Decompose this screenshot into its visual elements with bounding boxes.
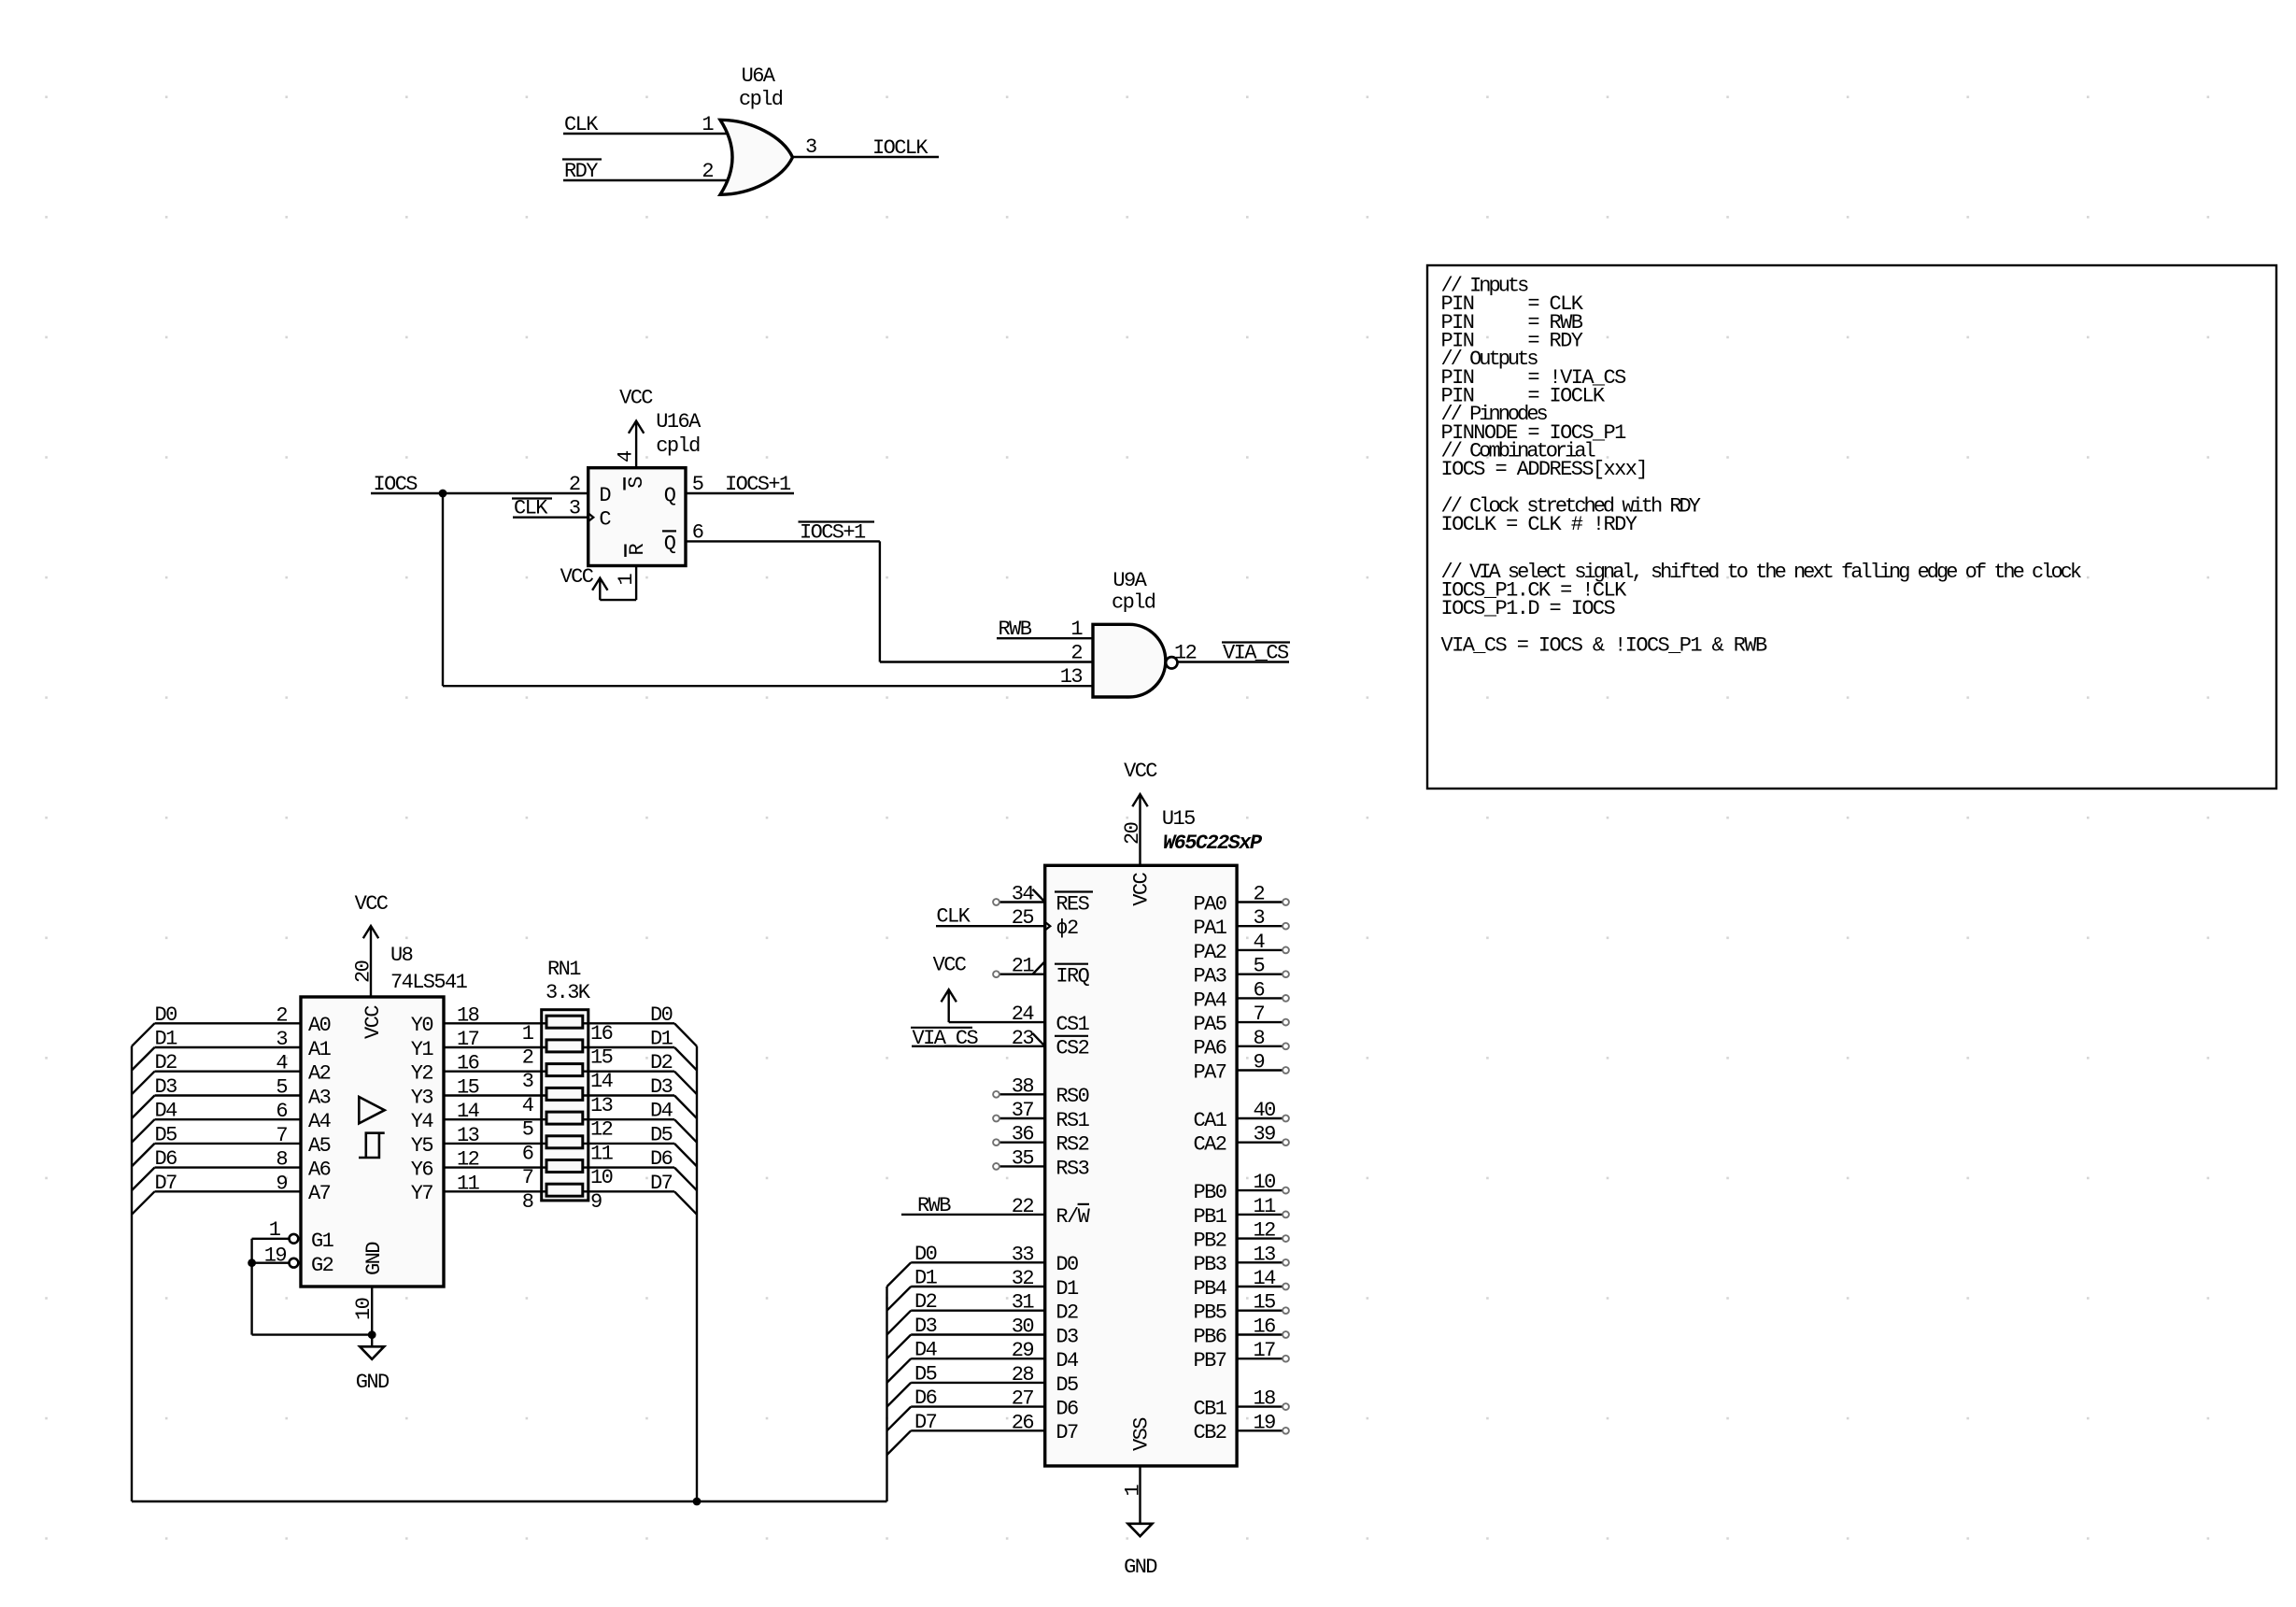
svg-text:VCC: VCC [1124, 760, 1157, 783]
svg-text:Y7: Y7 [411, 1182, 433, 1205]
wire bottom data bus horizontal [132, 1500, 887, 1502]
resistor RN1 element 6 [546, 1136, 583, 1148]
svg-text:1: 1 [702, 113, 714, 136]
svg-text:RS3: RS3 [1056, 1157, 1088, 1180]
svg-text:28: 28 [1012, 1363, 1034, 1387]
svg-text:IOCS+1: IOCS+1 [725, 473, 791, 496]
wire RN1 element 1 lead-through [542, 1022, 588, 1024]
svg-text:PB1: PB1 [1193, 1205, 1226, 1229]
output inversion bubble [1166, 657, 1177, 668]
pin PB6 (16) of U15 [1237, 1333, 1283, 1335]
svg-text:CLK: CLK [514, 497, 548, 520]
svg-text:D6: D6 [155, 1147, 177, 1171]
svg-text:17: 17 [457, 1028, 479, 1051]
svg-text:cpld: cpld [739, 88, 783, 111]
pin PB0 (10) of U15 [1237, 1189, 1283, 1191]
resistor RN1 element 7 [546, 1160, 583, 1173]
svg-text:U8: U8 [390, 944, 413, 967]
wire RN1 to D4 (right) [588, 1118, 674, 1120]
svg-text:PB0: PB0 [1193, 1181, 1226, 1204]
svg-text:cpld: cpld [1112, 591, 1155, 615]
svg-text:RS2: RS2 [1056, 1133, 1088, 1157]
svg-text:VCC: VCC [560, 565, 594, 589]
svg-text:PA0: PA0 [1193, 892, 1226, 916]
svg-text:2: 2 [702, 160, 713, 183]
wire D7 bus entry (left) [132, 1191, 155, 1215]
svg-text:VCC: VCC [361, 1005, 385, 1039]
svg-text:PA7: PA7 [1193, 1060, 1226, 1084]
wire RN1 element 8 lead-through [542, 1190, 588, 1192]
svg-text:CB2: CB2 [1193, 1421, 1226, 1444]
svg-text:D: D [599, 484, 611, 507]
pin CA2 (39) of U15 [1237, 1141, 1283, 1143]
svg-text:IOCS = ADDRESS[xxx]: IOCS = ADDRESS[xxx] [1441, 458, 1647, 481]
pin D4 (29) of U15 [911, 1358, 1044, 1359]
svg-text:Y4: Y4 [411, 1110, 434, 1133]
pin PB4 (14) of U15 [1237, 1286, 1283, 1287]
svg-text:2: 2 [1254, 883, 1265, 906]
svg-text:11: 11 [457, 1172, 480, 1195]
pin PB3 (13) of U15 [1237, 1261, 1283, 1263]
svg-text:11: 11 [1254, 1195, 1277, 1218]
svg-text:VCC: VCC [1130, 872, 1154, 905]
svg-text:IOCS: IOCS [374, 473, 418, 496]
wire right data bus vertical [696, 1046, 698, 1501]
resistor RN1 element 5 [546, 1112, 583, 1124]
wire G1 to G2 tie [252, 1238, 290, 1240]
svg-text:PB3: PB3 [1193, 1253, 1226, 1276]
wire RWB to U15 R/W [901, 1214, 1045, 1216]
wire D0 bus entry (left) [132, 1023, 155, 1046]
pin D6 (27) of U15 [911, 1405, 1044, 1407]
svg-text:D6: D6 [914, 1387, 937, 1410]
svg-text:D7: D7 [1056, 1421, 1078, 1444]
svg-text:CS2: CS2 [1056, 1037, 1088, 1060]
svg-text:D5: D5 [1056, 1373, 1078, 1397]
svg-text:18: 18 [457, 1003, 479, 1027]
wire D4 bus entry (left) [132, 1119, 155, 1143]
svg-text:D4: D4 [650, 1100, 673, 1123]
wire D7 bus entry (U15) [887, 1430, 912, 1455]
wire RN1 element 6 lead-through [542, 1143, 588, 1145]
pin D5 (28) of U15 [911, 1382, 1044, 1384]
pin PA4 (6) of U15 [1237, 997, 1283, 999]
svg-text:3.3K: 3.3K [546, 981, 591, 1004]
nand-gate U9A body [1093, 624, 1166, 697]
wire D3 to U8 pin A3 [155, 1094, 302, 1096]
svg-text:6: 6 [276, 1100, 287, 1123]
wire D3 bus entry (left) [132, 1096, 155, 1119]
svg-text:D1: D1 [650, 1028, 673, 1051]
svg-text:1: 1 [1070, 618, 1083, 641]
resistor-network RN1 outer body [542, 1010, 588, 1201]
svg-text:D0: D0 [650, 1003, 673, 1027]
svg-text:27: 27 [1012, 1387, 1034, 1411]
svg-text:RES: RES [1056, 892, 1089, 916]
wire RN1 to D7 (right) [588, 1190, 674, 1192]
svg-text:A7: A7 [308, 1182, 331, 1205]
svg-text:D3: D3 [1056, 1325, 1078, 1348]
clock wedge on pin C [588, 513, 594, 521]
svg-text:9: 9 [1254, 1051, 1265, 1074]
svg-text:D1: D1 [914, 1267, 938, 1290]
wire D5 bus entry (left) [132, 1144, 155, 1167]
svg-text:VIA_CS = IOCS & !IOCS_P1 & RWB: VIA_CS = IOCS & !IOCS_P1 & RWB [1441, 634, 1767, 658]
svg-text:VSS: VSS [1130, 1417, 1154, 1451]
svg-text:13: 13 [1060, 665, 1083, 689]
svg-text:PB2: PB2 [1193, 1230, 1226, 1253]
pin RS3 (35) of U15 [999, 1165, 1045, 1167]
svg-text:5: 5 [522, 1118, 533, 1142]
svg-text:GND: GND [1124, 1556, 1157, 1579]
wire D6 to U8 pin A6 [155, 1166, 302, 1168]
svg-text:IOCLK = CLK # !RDY: IOCLK = CLK # !RDY [1441, 513, 1637, 536]
svg-text:VCC: VCC [355, 892, 389, 916]
ground symbol below U8 [360, 1346, 384, 1359]
wire RWB to U9A pin 1 [997, 637, 1093, 639]
wire RN1 to D5 (right) [588, 1143, 674, 1145]
svg-text:S: S [625, 476, 648, 489]
svg-text:R/W: R/W [1056, 1205, 1090, 1229]
svg-text:D2: D2 [155, 1051, 177, 1074]
svg-text:Y1: Y1 [411, 1038, 434, 1061]
pin PA2 (4) of U15 [1237, 949, 1283, 951]
svg-text:ϕ2: ϕ2 [1056, 917, 1078, 940]
svg-text:20: 20 [352, 960, 376, 983]
wire D6 bus entry (U15) [887, 1407, 912, 1431]
pin PA1 (3) of U15 [1237, 925, 1283, 927]
pin 4 stub to VCC [635, 421, 637, 468]
svg-text:2: 2 [1070, 642, 1082, 665]
wire D3 bus entry (U15) [887, 1335, 912, 1359]
wire IOCS down to U9A pin 13 [442, 493, 444, 686]
svg-text:14: 14 [1254, 1267, 1277, 1290]
svg-text:Y2: Y2 [411, 1062, 433, 1086]
svg-text:5: 5 [1254, 955, 1265, 978]
svg-text:D2: D2 [650, 1051, 673, 1074]
pin RES (34) of U15 [999, 901, 1045, 903]
svg-text:U9A: U9A [1113, 569, 1147, 592]
svg-text:VIA_CS: VIA_CS [1223, 642, 1289, 665]
wire U16A Qbar to U9A pin 2 [686, 540, 880, 542]
pin PA5 (7) of U15 [1237, 1021, 1283, 1023]
wire D4 bus entry (U15) [887, 1358, 912, 1383]
svg-text:Y3: Y3 [411, 1086, 433, 1109]
svg-text:16: 16 [457, 1052, 479, 1075]
svg-text:5: 5 [276, 1076, 287, 1100]
wire RN1 to D1 (right) [588, 1046, 674, 1048]
pin IRQ (21) of U15 [999, 973, 1045, 974]
pin PA0 (2) of U15 [1237, 901, 1283, 903]
wire D0 bus entry (U15) [887, 1262, 912, 1287]
node GND junction [368, 1330, 376, 1339]
power VCC above U16A [629, 421, 644, 434]
svg-text:40: 40 [1254, 1099, 1276, 1122]
svg-text:6: 6 [522, 1142, 533, 1165]
svg-text:A4: A4 [308, 1110, 332, 1133]
svg-text:D7: D7 [914, 1411, 937, 1434]
svg-text:CA1: CA1 [1193, 1109, 1226, 1132]
pin CB2 (19) of U15 [1237, 1429, 1283, 1431]
via U15 body [1045, 865, 1237, 1466]
hysteresis symbol [359, 1133, 379, 1158]
pin PA7 (9) of U15 [1237, 1069, 1283, 1071]
svg-text:3: 3 [805, 135, 816, 159]
svg-text:D3: D3 [914, 1315, 937, 1338]
svg-text:29: 29 [1012, 1339, 1034, 1362]
buffer symbol triangle [359, 1097, 384, 1123]
resistor RN1 element 1 [546, 1016, 583, 1028]
svg-text:74LS541: 74LS541 [390, 971, 468, 994]
resistor RN1 element 4 [546, 1088, 583, 1100]
pin PA3 (5) of U15 [1237, 973, 1283, 974]
svg-text:39: 39 [1254, 1123, 1276, 1146]
svg-text:RDY: RDY [564, 160, 598, 183]
svg-text:A1: A1 [308, 1038, 332, 1061]
svg-text:1: 1 [1122, 1485, 1145, 1497]
svg-text:GND: GND [356, 1371, 390, 1394]
svg-text:IOCLK: IOCLK [872, 136, 928, 160]
svg-text:34: 34 [1012, 883, 1035, 906]
svg-text:3: 3 [276, 1028, 287, 1051]
wire U8 pin 10 (GND) [371, 1287, 373, 1346]
pin PB5 (15) of U15 [1237, 1309, 1283, 1311]
wire RN1 element 4 lead-through [542, 1094, 588, 1096]
svg-text:D6: D6 [650, 1147, 673, 1171]
svg-text:9: 9 [590, 1190, 602, 1214]
wire RN1 to D2 (right) [588, 1070, 674, 1072]
wire RN1 to D0 (right) [588, 1022, 674, 1024]
buffer U8 body [301, 997, 444, 1287]
svg-text:10: 10 [590, 1166, 613, 1189]
svg-text:A6: A6 [308, 1159, 331, 1182]
inversion bubble G2 [290, 1259, 299, 1268]
wire D6 bus entry (left) [132, 1168, 155, 1191]
svg-text:RN1: RN1 [547, 958, 581, 981]
svg-text:20: 20 [1121, 822, 1144, 845]
svg-text:PA5: PA5 [1193, 1013, 1226, 1036]
svg-text:D1: D1 [1056, 1277, 1079, 1301]
power VCC above U15 (pin 20) [1139, 794, 1141, 865]
svg-text:19: 19 [1254, 1411, 1276, 1434]
wire U15 pin 1 (VSS) to GND [1139, 1466, 1141, 1524]
svg-text:D2: D2 [914, 1290, 937, 1314]
svg-text:3: 3 [522, 1070, 533, 1093]
pin 1 stub to VCC (bottom) [635, 566, 637, 601]
svg-text:D4: D4 [1056, 1349, 1079, 1372]
svg-text:3: 3 [1254, 906, 1265, 930]
wire U16A Q to IOCS+1 [686, 492, 794, 494]
pin D7 (26) of U15 [911, 1429, 1044, 1431]
svg-text:D1: D1 [155, 1028, 178, 1051]
power VCC to U15 CS1 [948, 989, 950, 1022]
svg-text:21: 21 [1012, 955, 1035, 978]
wire D1 bus entry (right) [674, 1047, 697, 1071]
wire D0 bus entry (right) [674, 1023, 697, 1046]
wire U8 Y6 to RN1 [444, 1166, 542, 1168]
svg-text:35: 35 [1012, 1146, 1034, 1170]
svg-text:10: 10 [1254, 1171, 1276, 1194]
svg-text:8: 8 [1254, 1027, 1265, 1050]
pin CB1 (18) of U15 [1237, 1405, 1283, 1407]
wire U8 Y2 to RN1 [444, 1070, 542, 1072]
svg-text:D3: D3 [155, 1075, 177, 1099]
wire VIA_CS to U15 CS2 [912, 1045, 1045, 1047]
svg-text:D4: D4 [155, 1100, 178, 1123]
wire U6A pin 3 to IOCLK [792, 156, 939, 158]
pin D3 (30) of U15 [911, 1333, 1044, 1335]
resistor RN1 element 2 [546, 1040, 583, 1052]
svg-text:14: 14 [590, 1070, 614, 1093]
svg-text:4: 4 [276, 1052, 288, 1075]
pin D0 (33) of U15 [911, 1261, 1044, 1263]
svg-text:Q: Q [664, 532, 676, 555]
svg-text:18: 18 [1254, 1387, 1276, 1411]
wire U8 Y4 to RN1 [444, 1118, 542, 1120]
pin RS2 (36) of U15 [999, 1141, 1045, 1143]
svg-text:VCC: VCC [933, 954, 967, 977]
svg-text:G1: G1 [311, 1230, 334, 1253]
wire D5 to U8 pin A5 [155, 1143, 302, 1145]
svg-text:PA1: PA1 [1193, 917, 1226, 940]
svg-text:8: 8 [522, 1190, 533, 1214]
ground symbol below U15 [1128, 1524, 1153, 1537]
svg-text:2: 2 [276, 1003, 287, 1027]
svg-text:13: 13 [457, 1124, 479, 1147]
svg-text:VIA_CS: VIA_CS [913, 1027, 979, 1050]
svg-text:D2: D2 [1056, 1301, 1078, 1325]
svg-text:1: 1 [522, 1022, 534, 1045]
svg-text:15: 15 [457, 1076, 479, 1100]
wire CLK to U15 phi2 [936, 925, 1045, 927]
svg-text:PA4: PA4 [1193, 988, 1226, 1012]
wire D4 to U8 pin A4 [155, 1118, 302, 1120]
svg-text:D6: D6 [1056, 1398, 1078, 1421]
svg-text:13: 13 [590, 1094, 613, 1117]
svg-text:G2: G2 [311, 1254, 333, 1277]
pin RS0 (38) of U15 [999, 1093, 1045, 1095]
svg-text:Q: Q [664, 484, 676, 507]
svg-text:7: 7 [276, 1124, 287, 1147]
svg-text:Y6: Y6 [411, 1159, 433, 1182]
svg-text:12: 12 [590, 1118, 613, 1142]
svg-text:14: 14 [457, 1100, 480, 1123]
svg-text:C: C [599, 508, 611, 532]
equations text box frame [1427, 265, 2276, 789]
svg-text:4: 4 [1254, 931, 1266, 954]
svg-text:6: 6 [1254, 978, 1265, 1002]
svg-text:CLK: CLK [564, 113, 599, 136]
svg-text:38: 38 [1012, 1074, 1034, 1098]
pin RS1 (37) of U15 [999, 1117, 1045, 1119]
svg-text:GND: GND [362, 1242, 386, 1275]
power VCC above U8 (pin 20) [370, 926, 372, 997]
svg-text:D7: D7 [155, 1172, 177, 1195]
svg-text:15: 15 [1254, 1291, 1276, 1315]
svg-text:12: 12 [457, 1148, 479, 1172]
svg-text:37: 37 [1012, 1099, 1034, 1122]
wire U15 data bus vertical [886, 1287, 887, 1501]
wire U9A pin 12 to VIA_CS [1178, 661, 1290, 662]
svg-text:2: 2 [569, 473, 580, 496]
svg-text:VCC: VCC [619, 386, 653, 409]
wire RN1 element 3 lead-through [542, 1070, 588, 1072]
svg-text:PB7: PB7 [1193, 1349, 1226, 1372]
wire D7 bus entry (right) [674, 1191, 697, 1215]
wire D4 bus entry (right) [674, 1119, 697, 1143]
wire U8 Y5 to RN1 [444, 1143, 542, 1145]
svg-text:D4: D4 [914, 1339, 938, 1362]
wire RN1 element 7 lead-through [542, 1166, 588, 1168]
svg-text:15: 15 [590, 1046, 613, 1070]
svg-text:PB4: PB4 [1193, 1277, 1226, 1301]
wire D1 to U8 pin A1 [155, 1046, 302, 1048]
or-gate U6A [720, 120, 793, 194]
svg-text:Y5: Y5 [411, 1134, 433, 1158]
inversion bubble G1 [290, 1234, 299, 1244]
svg-text:12: 12 [1254, 1219, 1276, 1243]
svg-text:RWB: RWB [999, 618, 1032, 641]
svg-text:RS1: RS1 [1056, 1109, 1089, 1132]
svg-text:PA6: PA6 [1193, 1037, 1226, 1060]
svg-text:D0: D0 [1056, 1253, 1078, 1276]
wire RN1 to D3 (right) [588, 1094, 674, 1096]
svg-text:7: 7 [1254, 1003, 1265, 1026]
svg-text:8: 8 [276, 1148, 287, 1172]
svg-text:U6A: U6A [742, 64, 776, 88]
svg-text:IOCS_P1.D = IOCS: IOCS_P1.D = IOCS [1441, 597, 1616, 620]
svg-text:A5: A5 [308, 1134, 331, 1158]
svg-text:R: R [626, 544, 649, 556]
node IOCS junction [439, 490, 447, 498]
wire RN1 element 5 lead-through [542, 1118, 588, 1120]
wire D2 bus entry (left) [132, 1072, 155, 1095]
resistor RN1 element 3 [546, 1064, 583, 1076]
svg-text:PA2: PA2 [1193, 941, 1226, 964]
pin CA1 (40) of U15 [1237, 1117, 1283, 1119]
pin D1 (32) of U15 [911, 1286, 1044, 1287]
svg-text:16: 16 [590, 1022, 613, 1045]
svg-text:31: 31 [1012, 1291, 1035, 1315]
svg-text:A2: A2 [308, 1062, 331, 1086]
wire U8 Y3 to RN1 [444, 1094, 542, 1096]
svg-text:U16A: U16A [656, 410, 702, 434]
wire U8 Y7 to RN1 [444, 1190, 542, 1192]
wire CLK(inv) to U16A pin 3 (C) [513, 517, 588, 519]
pin PB7 (17) of U15 [1237, 1358, 1283, 1359]
pin PA6 (8) of U15 [1237, 1045, 1283, 1047]
svg-text:IRQ: IRQ [1056, 965, 1089, 988]
flip-flop U16A body [588, 468, 686, 566]
svg-text:7: 7 [522, 1166, 533, 1189]
wire CLK to U6A pin 1 [563, 133, 728, 135]
svg-text:RWB: RWB [917, 1194, 951, 1217]
svg-text:4: 4 [522, 1094, 534, 1117]
svg-text:2: 2 [522, 1046, 533, 1070]
svg-text:PB5: PB5 [1193, 1301, 1226, 1325]
svg-text:RS0: RS0 [1056, 1085, 1088, 1108]
svg-text:D5: D5 [650, 1123, 673, 1146]
svg-text:CS1: CS1 [1056, 1013, 1089, 1036]
svg-text:CB1: CB1 [1193, 1398, 1226, 1421]
wire D6 bus entry (right) [674, 1168, 697, 1191]
svg-text:cpld: cpld [656, 434, 700, 458]
svg-text:10: 10 [352, 1298, 376, 1320]
svg-text:PA3: PA3 [1193, 965, 1226, 988]
wire U8 Y0 to RN1 [444, 1022, 542, 1024]
svg-text:13: 13 [1254, 1243, 1276, 1266]
svg-text:A3: A3 [308, 1086, 331, 1109]
